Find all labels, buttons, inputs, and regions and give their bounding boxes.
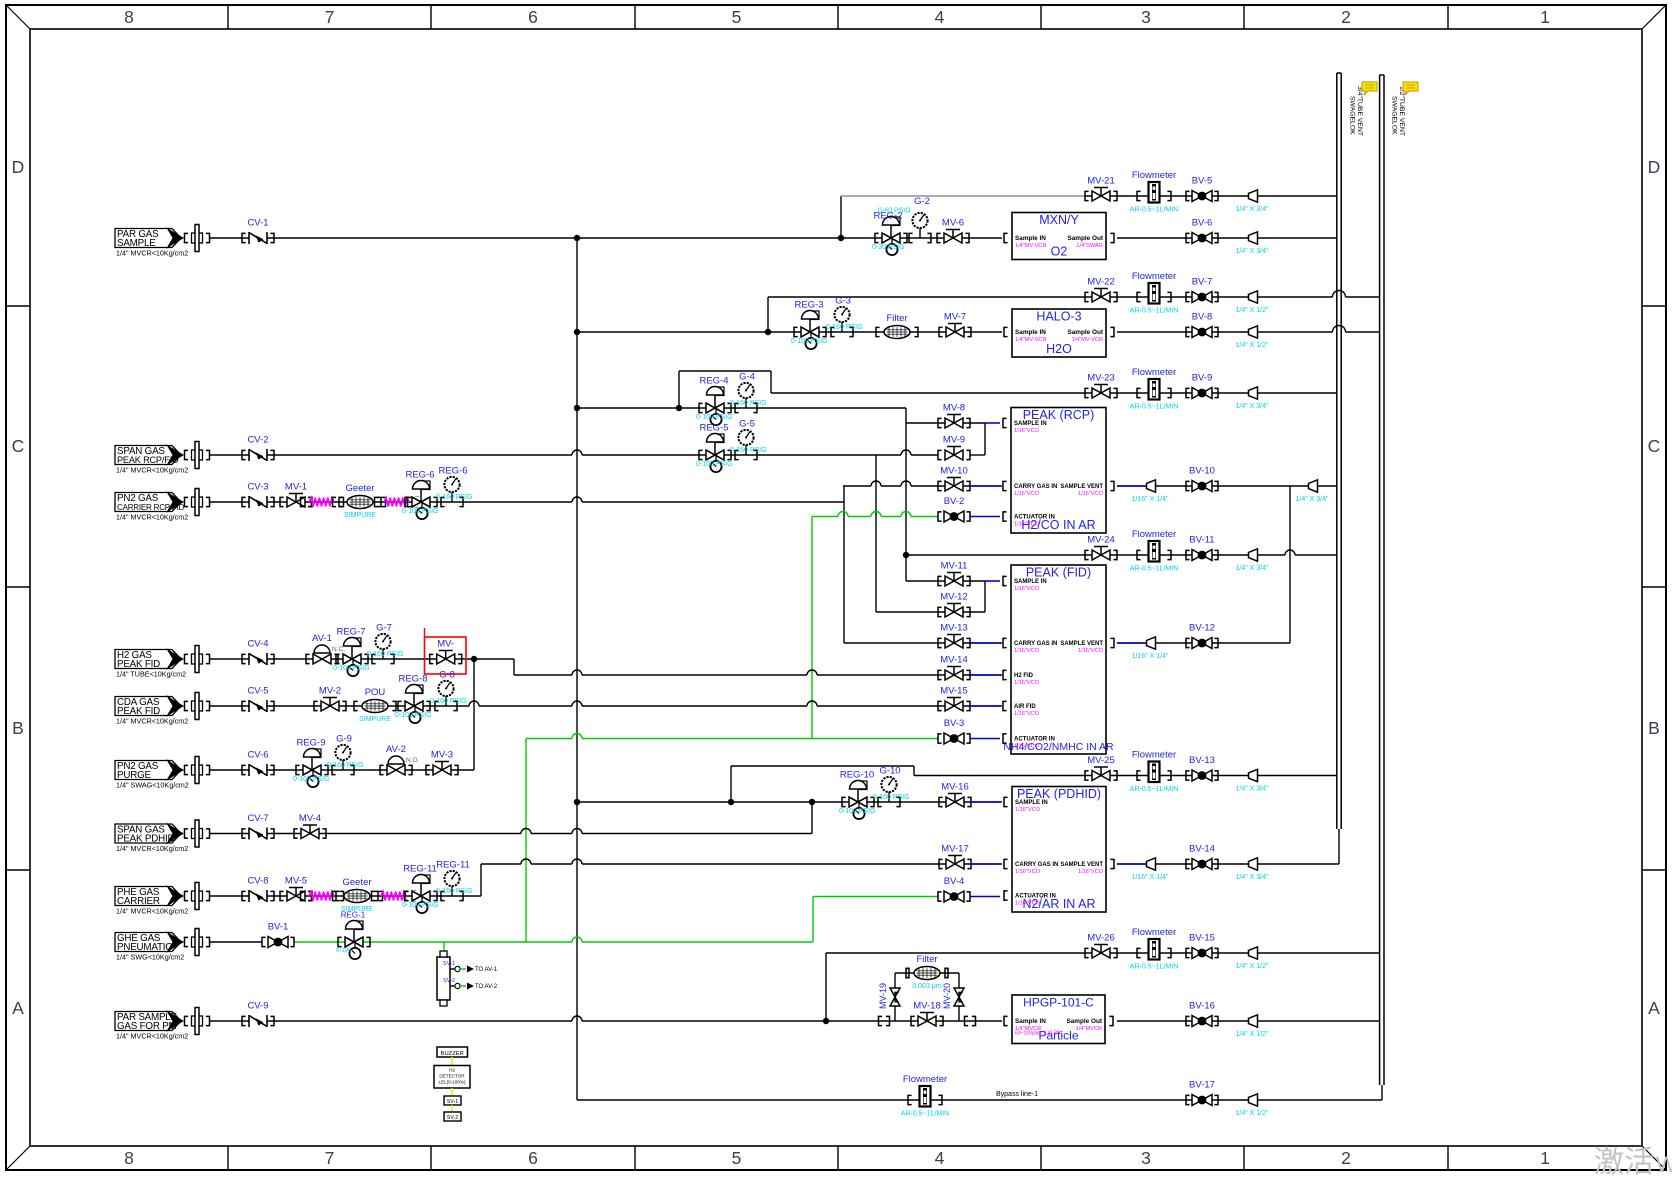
- svg-text:CV-2: CV-2: [247, 435, 268, 446]
- svg-text:REG-5: REG-5: [699, 423, 728, 434]
- svg-text:DETECTOR: DETECTOR: [439, 1074, 465, 1079]
- svg-text:BV-5: BV-5: [1192, 176, 1213, 187]
- svg-text:0-60 PSIG: 0-60 PSIG: [878, 208, 911, 215]
- svg-text:SAMPLE IN: SAMPLE IN: [1014, 579, 1047, 585]
- svg-text:1/16"VCO: 1/16"VCO: [1078, 491, 1104, 497]
- svg-text:0-100 PSIG: 0-100 PSIG: [333, 665, 370, 672]
- svg-text:AR-0.5~1L/MIN: AR-0.5~1L/MIN: [1130, 786, 1178, 793]
- svg-text:CV-6: CV-6: [247, 750, 268, 761]
- svg-text:1/16"VCO: 1/16"VCO: [1014, 428, 1040, 434]
- svg-text:ACTUATOR IN: ACTUATOR IN: [1014, 737, 1055, 743]
- svg-text:1/4"MVCR: 1/4"MVCR: [1076, 1026, 1102, 1032]
- svg-text:BV-9: BV-9: [1192, 373, 1213, 384]
- svg-text:W: W: [1656, 1152, 1672, 1177]
- svg-text:1/4"MV-VCR: 1/4"MV-VCR: [1071, 337, 1103, 343]
- svg-text:1/4" X 3/4": 1/4" X 3/4": [1236, 403, 1270, 410]
- svg-text:1/16"VCO: 1/16"VCO: [1015, 869, 1041, 875]
- svg-text:H2: H2: [449, 1068, 455, 1073]
- svg-text:MV-8: MV-8: [943, 403, 965, 414]
- svg-text:H2 FID: H2 FID: [1014, 673, 1034, 679]
- svg-text:0-100 PSIG: 0-100 PSIG: [696, 414, 733, 421]
- svg-text:1/4" MVCR<10Kg/cm2: 1/4" MVCR<10Kg/cm2: [116, 1032, 188, 1041]
- svg-text:BV-14: BV-14: [1189, 844, 1215, 855]
- svg-text:1/4" X 3/4": 1/4" X 3/4": [1236, 248, 1270, 255]
- svg-text:1/16"VCO: 1/16"VCO: [1078, 869, 1104, 875]
- svg-text:1/4" X 3/4": 1/4" X 3/4": [1236, 206, 1270, 213]
- svg-text:AIR FID: AIR FID: [1014, 704, 1036, 710]
- svg-text:AR-0.5~1L/MIN: AR-0.5~1L/MIN: [1130, 964, 1178, 971]
- svg-text:REG-6: REG-6: [438, 466, 467, 477]
- svg-text:0-160 PSIG: 0-160 PSIG: [436, 888, 473, 895]
- svg-text:MV-24: MV-24: [1087, 535, 1114, 546]
- svg-text:G-4: G-4: [739, 372, 755, 383]
- svg-text:MV-19: MV-19: [878, 983, 888, 1009]
- svg-text:MV-16: MV-16: [941, 782, 968, 793]
- svg-text:LEL(0-100%): LEL(0-100%): [438, 1080, 466, 1085]
- svg-text:MV-25: MV-25: [1087, 755, 1114, 766]
- svg-text:D: D: [1648, 157, 1661, 177]
- svg-text:BV-7: BV-7: [1192, 277, 1213, 288]
- svg-text:MV-2: MV-2: [319, 686, 341, 697]
- svg-text:1/4" MVCR<10Kg/cm2: 1/4" MVCR<10Kg/cm2: [116, 907, 188, 916]
- svg-text:3: 3: [1141, 7, 1151, 27]
- svg-text:Geeter: Geeter: [342, 877, 371, 888]
- svg-text:3/4"TUBE VENT: 3/4"TUBE VENT: [1356, 86, 1363, 136]
- svg-text:BV-3: BV-3: [944, 718, 965, 729]
- svg-text:Sample Out: Sample Out: [1067, 329, 1103, 336]
- svg-text:0-160 PSIG: 0-160 PSIG: [826, 324, 863, 331]
- svg-text:BV-13: BV-13: [1189, 755, 1215, 766]
- svg-text:BV-17: BV-17: [1189, 1080, 1215, 1091]
- svg-text:CV-5: CV-5: [247, 686, 268, 697]
- svg-text:0-100 PSIG: 0-100 PSIG: [696, 461, 733, 468]
- svg-text:MV-1: MV-1: [285, 482, 307, 493]
- svg-text:N.C.: N.C.: [332, 646, 345, 653]
- svg-text:Geeter: Geeter: [345, 483, 374, 494]
- svg-text:MV-20: MV-20: [942, 983, 952, 1009]
- svg-text:BV-16: BV-16: [1189, 1001, 1215, 1012]
- svg-text:Filter: Filter: [916, 954, 937, 965]
- svg-text:SAMPLE VENT: SAMPLE VENT: [1060, 484, 1103, 490]
- svg-text:1/4" MVCR<10Kg/cm2: 1/4" MVCR<10Kg/cm2: [116, 717, 188, 726]
- svg-text:SAMPLE IN: SAMPLE IN: [1015, 800, 1048, 806]
- svg-text:CV-3: CV-3: [247, 482, 268, 493]
- svg-text:B: B: [1648, 718, 1660, 738]
- svg-text:1/16" X 1/4": 1/16" X 1/4": [1132, 496, 1169, 503]
- svg-text:1/16"VCO: 1/16"VCO: [1014, 586, 1040, 592]
- svg-text:1/4" MVCR<10Kg/cm2: 1/4" MVCR<10Kg/cm2: [116, 249, 188, 258]
- svg-text:BV-8: BV-8: [1192, 312, 1213, 323]
- svg-text:G-7: G-7: [376, 623, 392, 634]
- svg-text:CV-8: CV-8: [247, 876, 268, 887]
- svg-text:AR-0.5~1L/MIN: AR-0.5~1L/MIN: [1130, 404, 1178, 411]
- svg-text:1/16"VCO: 1/16"VCO: [1014, 744, 1040, 750]
- svg-text:G-8: G-8: [439, 670, 455, 681]
- svg-text:SV-2: SV-2: [447, 1115, 458, 1121]
- svg-text:Flowmeter: Flowmeter: [1132, 927, 1176, 938]
- svg-text:AV-1: AV-1: [312, 633, 332, 644]
- svg-text:POU: POU: [365, 687, 386, 698]
- svg-text:8: 8: [124, 1148, 134, 1168]
- svg-text:8: 8: [124, 7, 134, 27]
- svg-text:PEAK (PDHID): PEAK (PDHID): [1017, 787, 1101, 801]
- svg-text:MV-6: MV-6: [942, 218, 964, 229]
- svg-text:1/16"VCO: 1/16"VCO: [1014, 522, 1040, 528]
- svg-text:AV-2: AV-2: [386, 744, 406, 755]
- svg-text:1/16" X 1/4": 1/16" X 1/4": [1132, 653, 1169, 660]
- svg-text:CARRY GAS IN: CARRY GAS IN: [1014, 641, 1057, 647]
- svg-text:A: A: [12, 998, 24, 1018]
- svg-text:1/4" MVCR<10Kg/cm2: 1/4" MVCR<10Kg/cm2: [116, 844, 188, 853]
- svg-text:AR-0.5~1L/MIN: AR-0.5~1L/MIN: [901, 1111, 949, 1118]
- svg-text:BV-1: BV-1: [268, 922, 289, 933]
- svg-text:0-100 PSIG: 0-100 PSIG: [839, 808, 876, 815]
- svg-text:1/4" X 3/4": 1/4" X 3/4": [1236, 565, 1270, 572]
- svg-text:Flowmeter: Flowmeter: [1132, 170, 1176, 181]
- svg-text:Sample Out: Sample Out: [1066, 1018, 1102, 1025]
- svg-text:CV-7: CV-7: [247, 813, 268, 824]
- svg-text:1/4" X 3/4": 1/4" X 3/4": [1236, 874, 1270, 881]
- svg-text:1/4"SWAG: 1/4"SWAG: [1076, 243, 1103, 249]
- svg-text:MV-18: MV-18: [913, 1001, 940, 1012]
- svg-text:MV-26: MV-26: [1087, 933, 1114, 944]
- svg-text:1: 1: [1540, 1148, 1550, 1168]
- svg-text:Flowmeter: Flowmeter: [903, 1074, 947, 1085]
- svg-text:1/16"VCO: 1/16"VCO: [1015, 807, 1041, 813]
- svg-text:G-9: G-9: [336, 734, 352, 745]
- svg-text:AR-0.5~1L/MIN: AR-0.5~1L/MIN: [1130, 308, 1178, 315]
- svg-text:6: 6: [528, 7, 538, 27]
- svg-text:0-100 PSIG: 0-100 PSIG: [791, 338, 828, 345]
- svg-text:1/4" X 3/4": 1/4" X 3/4": [1236, 786, 1270, 793]
- svg-text:MV-10: MV-10: [940, 466, 967, 477]
- svg-text:CV-9: CV-9: [247, 1001, 268, 1012]
- svg-text:BV-2: BV-2: [944, 496, 965, 507]
- svg-text:MV-13: MV-13: [940, 623, 967, 634]
- svg-text:1/4" MVCR<10Kg/cm2: 1/4" MVCR<10Kg/cm2: [116, 466, 188, 475]
- svg-text:5: 5: [732, 1148, 742, 1168]
- svg-text:0-160 PSIG: 0-160 PSIG: [327, 762, 364, 769]
- svg-text:SAMPLE IN: SAMPLE IN: [1014, 421, 1047, 427]
- svg-text:CARRY GAS IN: CARRY GAS IN: [1014, 484, 1057, 490]
- svg-text:Sample Out: Sample Out: [1067, 235, 1103, 242]
- svg-text:MV-21: MV-21: [1087, 176, 1114, 187]
- svg-text:1/16"VCO: 1/16"VCO: [1014, 648, 1040, 654]
- svg-text:Filter: Filter: [886, 313, 907, 324]
- svg-text:2: 2: [1341, 1148, 1351, 1168]
- svg-text:TO AV-1: TO AV-1: [475, 967, 498, 973]
- svg-text:1/4" X 3/4": 1/4" X 3/4": [1296, 496, 1330, 503]
- svg-text:1/4" X 1/2": 1/4" X 1/2": [1236, 1110, 1270, 1117]
- svg-text:SWAGELOK: SWAGELOK: [1349, 96, 1356, 135]
- svg-text:0-30 PSIG: 0-30 PSIG: [872, 244, 905, 251]
- svg-text:0-100 PSIG: 0-100 PSIG: [402, 508, 439, 515]
- svg-text:0-160 PSIG: 0-160 PSIG: [430, 698, 467, 705]
- svg-text:REG-3: REG-3: [794, 300, 823, 311]
- svg-text:MV-7: MV-7: [944, 312, 966, 323]
- svg-text:REG-11: REG-11: [403, 864, 437, 875]
- svg-text:SV-1: SV-1: [447, 1099, 458, 1105]
- svg-text:G-10: G-10: [879, 766, 900, 777]
- svg-text:5: 5: [732, 7, 742, 27]
- svg-text:Flowmeter: Flowmeter: [1132, 271, 1176, 282]
- svg-text:3: 3: [1141, 1148, 1151, 1168]
- svg-text:H2O: H2O: [1046, 342, 1072, 356]
- svg-text:REG-11: REG-11: [436, 860, 470, 871]
- svg-text:SAMPLE VENT: SAMPLE VENT: [1060, 641, 1103, 647]
- svg-text:1/4" X 1/2": 1/4" X 1/2": [1236, 963, 1270, 970]
- svg-text:1/4" X 1/2": 1/4" X 1/2": [1236, 307, 1270, 314]
- svg-text:BUZZER: BUZZER: [441, 1051, 464, 1057]
- svg-text:0-100 PSIG: 0-100 PSIG: [293, 776, 330, 783]
- svg-text:1/16" X 1/4": 1/16" X 1/4": [1132, 874, 1169, 881]
- svg-text:1/4" X 1/2": 1/4" X 1/2": [1236, 1031, 1270, 1038]
- svg-text:CARRY GAS IN: CARRY GAS IN: [1015, 862, 1058, 868]
- svg-text:1/4"MV-VCR: 1/4"MV-VCR: [1015, 337, 1047, 343]
- svg-text:REG-8: REG-8: [398, 674, 427, 685]
- svg-text:MV-9: MV-9: [943, 435, 965, 446]
- svg-text:7: 7: [325, 7, 335, 27]
- svg-text:MV-3: MV-3: [431, 750, 453, 761]
- svg-text:Flowmeter: Flowmeter: [1132, 367, 1176, 378]
- svg-text:O2: O2: [1051, 245, 1068, 259]
- svg-text:ACTUATOR IN: ACTUATOR IN: [1015, 894, 1056, 900]
- svg-text:1: 1: [1540, 7, 1550, 27]
- svg-text:MV-12: MV-12: [940, 592, 967, 603]
- svg-text:REG-7: REG-7: [336, 627, 365, 638]
- svg-text:AR-0.5~1L/MIN: AR-0.5~1L/MIN: [1130, 566, 1178, 573]
- svg-text:激活: 激活: [1594, 1146, 1654, 1177]
- svg-text:MV-14: MV-14: [940, 655, 967, 666]
- svg-text:7: 7: [325, 1148, 335, 1168]
- svg-text:ACTUATOR IN: ACTUATOR IN: [1014, 515, 1055, 521]
- svg-text:1/16"VCO: 1/16"VCO: [1014, 711, 1040, 717]
- svg-text:SV-1: SV-1: [443, 961, 455, 967]
- svg-text:REG-6: REG-6: [405, 470, 434, 481]
- svg-text:1/4" SWAG<10Kg/cm2: 1/4" SWAG<10Kg/cm2: [116, 781, 189, 790]
- svg-text:1/16"VCO: 1/16"VCO: [1014, 491, 1040, 497]
- svg-text:BV-10: BV-10: [1189, 466, 1215, 477]
- svg-text:SIMPURE: SIMPURE: [344, 512, 376, 519]
- svg-text:BV-4: BV-4: [944, 876, 965, 887]
- svg-text:0-100 PSIG: 0-100 PSIG: [402, 902, 439, 909]
- svg-text:MV-5: MV-5: [285, 876, 307, 887]
- svg-text:SV-2: SV-2: [443, 978, 455, 984]
- svg-text:PEAK (RCP): PEAK (RCP): [1023, 408, 1095, 422]
- svg-text:REG-9: REG-9: [296, 738, 325, 749]
- svg-text:MV-17: MV-17: [941, 844, 968, 855]
- svg-text:SIMPURE: SIMPURE: [359, 716, 391, 723]
- svg-text:REG-4: REG-4: [699, 376, 728, 387]
- svg-text:1/4" SWG<10Kg/cm2: 1/4" SWG<10Kg/cm2: [116, 953, 184, 962]
- svg-text:Flowmeter: Flowmeter: [1132, 750, 1176, 761]
- svg-text:0-100: 0-100: [336, 948, 352, 954]
- svg-text:CV-4: CV-4: [247, 639, 268, 650]
- svg-text:Bypass line-1: Bypass line-1: [996, 1091, 1038, 1098]
- svg-text:B: B: [12, 718, 24, 738]
- svg-text:C: C: [1648, 436, 1661, 456]
- svg-text:0-160 PSIG: 0-160 PSIG: [873, 794, 910, 801]
- svg-text:BV-11: BV-11: [1189, 535, 1214, 546]
- svg-text:TO AV-2: TO AV-2: [475, 984, 498, 990]
- svg-text:G-5: G-5: [739, 419, 755, 430]
- svg-text:1/4" TUBE<10Kg/cm2: 1/4" TUBE<10Kg/cm2: [116, 670, 186, 679]
- svg-text:0-160 PSIG: 0-160 PSIG: [730, 400, 767, 407]
- svg-text:MV-22: MV-22: [1087, 277, 1114, 288]
- svg-text:SAMPLE VENT: SAMPLE VENT: [1060, 862, 1103, 868]
- svg-text:Sample IN: Sample IN: [1015, 235, 1046, 242]
- svg-text:0-160 PSIG: 0-160 PSIG: [367, 651, 404, 658]
- svg-text:1/4" X 1/2": 1/4" X 1/2": [1236, 342, 1270, 349]
- svg-text:G-3: G-3: [835, 296, 851, 307]
- svg-text:1/4" MVCR<10Kg/cm2: 1/4" MVCR<10Kg/cm2: [116, 513, 188, 522]
- svg-text:Sample IN: Sample IN: [1015, 329, 1046, 336]
- svg-text:0-100 PSIG: 0-100 PSIG: [395, 712, 432, 719]
- svg-text:0-160 PSIG: 0-160 PSIG: [730, 447, 767, 454]
- svg-text:1/16"VCO: 1/16"VCO: [1078, 648, 1104, 654]
- svg-text:D: D: [12, 157, 25, 177]
- svg-text:BV-12: BV-12: [1189, 623, 1215, 634]
- svg-text:N.O.: N.O.: [406, 757, 420, 764]
- svg-text:CARRIER RCP/FID: CARRIER RCP/FID: [117, 503, 185, 512]
- svg-text:MV-11: MV-11: [941, 561, 968, 572]
- svg-text:60~100psig, 2.8LPM: 60~100psig, 2.8LPM: [1015, 1031, 1061, 1037]
- svg-text:0.003 μm: 0.003 μm: [912, 983, 941, 990]
- svg-text:MXN/Y: MXN/Y: [1039, 213, 1079, 227]
- svg-text:MV-15: MV-15: [940, 686, 967, 697]
- svg-text:PEAK RCP/FID: PEAK RCP/FID: [117, 455, 179, 465]
- svg-text:AR-0.5~1L/MIN: AR-0.5~1L/MIN: [1130, 207, 1178, 214]
- svg-text:MV-23: MV-23: [1087, 373, 1114, 384]
- svg-text:CV-1: CV-1: [247, 218, 268, 229]
- svg-text:PEAK (FID): PEAK (FID): [1026, 566, 1091, 580]
- svg-text:REG-10: REG-10: [840, 770, 874, 781]
- svg-text:MV-: MV-: [437, 639, 454, 650]
- svg-text:6: 6: [528, 1148, 538, 1168]
- svg-text:4: 4: [935, 7, 945, 27]
- svg-text:G-2: G-2: [914, 196, 930, 207]
- svg-text:HALO-3: HALO-3: [1036, 310, 1081, 324]
- svg-text:BV-15: BV-15: [1189, 933, 1215, 944]
- svg-text:SWAGELOK: SWAGELOK: [1391, 96, 1398, 135]
- svg-text:Sample IN: Sample IN: [1015, 1018, 1046, 1025]
- svg-text:BV-6: BV-6: [1192, 218, 1213, 229]
- svg-text:HPGP-101-C: HPGP-101-C: [1023, 996, 1094, 1010]
- svg-text:Flowmeter: Flowmeter: [1132, 529, 1176, 540]
- svg-text:1/2"TUBE VENT: 1/2"TUBE VENT: [1398, 86, 1405, 136]
- svg-text:MV-4: MV-4: [299, 813, 321, 824]
- svg-text:4: 4: [935, 1148, 945, 1168]
- svg-text:A: A: [1648, 998, 1660, 1018]
- svg-text:1/16"VCO: 1/16"VCO: [1014, 680, 1040, 686]
- svg-text:REG-1: REG-1: [341, 911, 366, 920]
- svg-text:C: C: [12, 436, 25, 456]
- svg-text:2: 2: [1341, 7, 1351, 27]
- svg-text:0-160 PSIG: 0-160 PSIG: [436, 494, 473, 501]
- svg-text:1/16"VCO: 1/16"VCO: [1015, 901, 1041, 907]
- svg-text:1/4"MV-VCR: 1/4"MV-VCR: [1015, 243, 1047, 249]
